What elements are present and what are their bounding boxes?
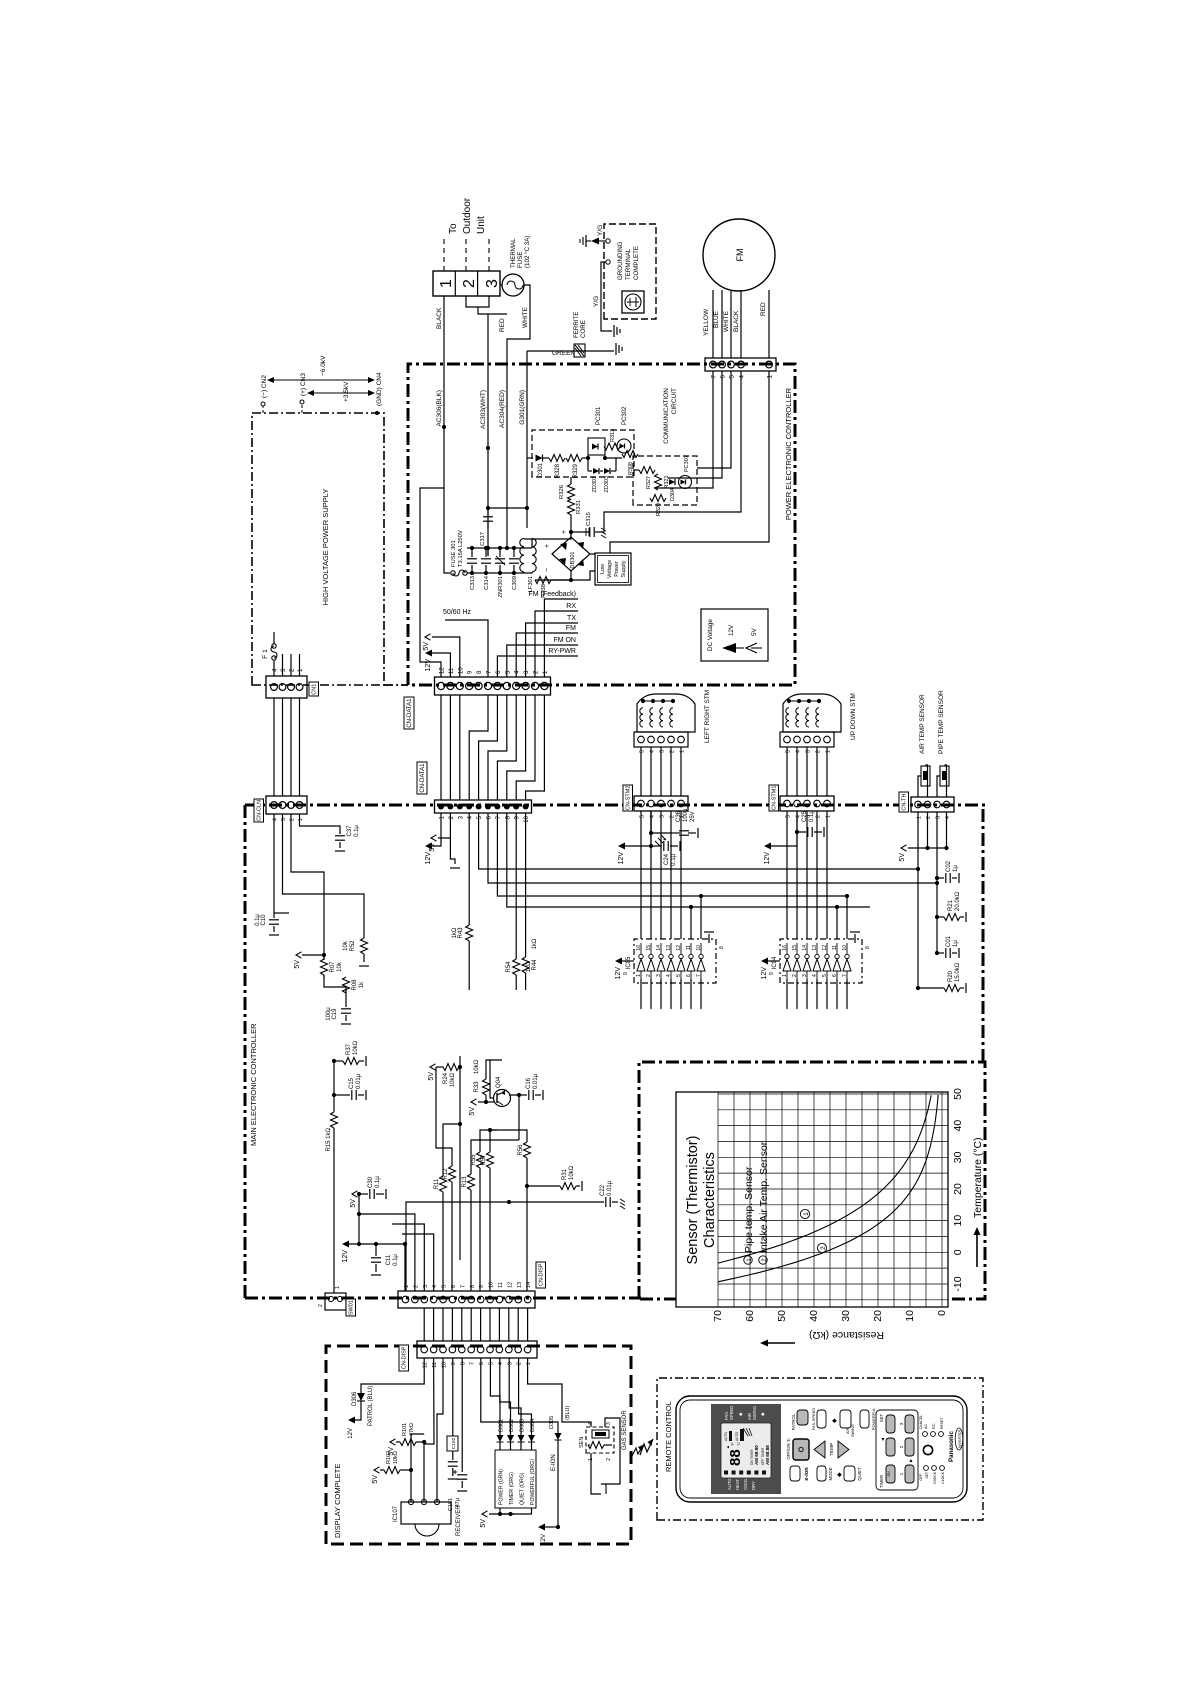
svg-text:−6.0kV: −6.0kV	[320, 355, 327, 376]
svg-text:GREEN: GREEN	[552, 350, 575, 357]
svg-text:C16: C16	[526, 1077, 532, 1089]
svg-text:e-ion: e-ion	[804, 1467, 810, 1481]
svg-text:C10: C10	[261, 914, 267, 926]
graph curve 1 pipe temp sensor	[718, 1095, 931, 1263]
svg-text:9: 9	[451, 1362, 457, 1365]
svg-text:C309: C309	[512, 576, 518, 590]
svg-text:88: 88	[727, 1449, 744, 1466]
svg-text:5: 5	[442, 1285, 448, 1288]
svg-text:AM 88:88: AM 88:88	[765, 1445, 770, 1465]
wires FM to connector	[712, 290, 714, 358]
wire SW01 to R15	[333, 1128, 335, 1293]
svg-text:IC05: IC05	[626, 956, 632, 969]
svg-text:POWER (GRN): POWER (GRN)	[499, 1469, 505, 1505]
svg-text:FM (Feedback): FM (Feedback)	[529, 591, 576, 598]
small buttons AC RC	[923, 1432, 928, 1437]
graph outer box	[676, 1092, 948, 1307]
capacitor C25	[797, 831, 806, 833]
resistor R33	[485, 1095, 487, 1102]
svg-text:3: 3	[484, 279, 501, 288]
svg-text:R313: R313	[610, 429, 616, 442]
resistor R320	[650, 495, 666, 502]
junction AC wires	[442, 425, 446, 429]
Q04 emitter and C16	[509, 1095, 519, 1102]
communication circuit dashed box 1	[532, 430, 634, 477]
capacitor C103	[448, 1465, 458, 1467]
thermistor AIR TEMP SENSOR	[918, 776, 921, 797]
wires FM connector pins 5 6 7	[656, 371, 713, 488]
svg-text:5V: 5V	[372, 1475, 379, 1484]
svg-text:D305: D305	[549, 1416, 555, 1429]
svg-text:DB301: DB301	[570, 551, 576, 568]
svg-text:6: 6	[832, 974, 838, 977]
wire terminal 1 to fuse area	[466, 296, 489, 307]
svg-text:Q04: Q04	[496, 1076, 502, 1088]
capacitor C22	[605, 1197, 607, 1207]
svg-text:AIR TEMP SENSOR: AIR TEMP SENSOR	[919, 694, 926, 754]
button POWERFUL	[860, 1410, 869, 1428]
svg-text:8: 8	[865, 946, 871, 949]
LED name box	[495, 1450, 536, 1508]
round clock button	[923, 1445, 932, 1454]
stub wires CN-DISP pins 2 3 4	[359, 1214, 415, 1291]
svg-text:QUIET: QUIET	[857, 1467, 862, 1481]
svg-text:14: 14	[526, 1282, 532, 1288]
connector CN-DISP main side	[398, 1291, 535, 1308]
svg-text:8: 8	[719, 946, 725, 949]
CN1 stub wires	[282, 654, 284, 676]
svg-text:R329: R329	[573, 463, 579, 478]
button e-ion	[790, 1466, 800, 1481]
svg-text:1: 1	[767, 375, 774, 379]
svg-text:12V: 12V	[425, 852, 432, 865]
label CN-DATA1 main side	[417, 762, 427, 794]
svg-text:7: 7	[842, 974, 848, 977]
svg-text:4: 4	[812, 974, 818, 977]
opto coupler PC307	[679, 476, 692, 489]
svg-text:1: 1	[335, 1286, 341, 1289]
svg-text:5: 5	[822, 974, 828, 977]
svg-text:R33: R33	[474, 1081, 480, 1093]
resistors R331 R326 chain	[570, 515, 572, 537]
svg-text:5: 5	[676, 974, 682, 977]
svg-text:20: 20	[952, 1183, 964, 1195]
svg-text:R55: R55	[471, 1154, 477, 1166]
5V arrow CN-DATA1 main	[438, 813, 450, 838]
display complete dashed box	[326, 1346, 631, 1544]
switch SW01	[325, 1293, 346, 1310]
svg-text:INVERTER: INVERTER	[958, 1430, 962, 1449]
svg-text:7: 7	[711, 375, 718, 379]
graph curve 2 intake air temp sensor	[718, 1095, 938, 1282]
stepper motor LEFT RIGHT STM	[637, 694, 695, 732]
svg-text:30: 30	[840, 1310, 852, 1322]
wires CN1 to CN-CLN	[273, 698, 275, 796]
curve label 1	[800, 1209, 809, 1218]
svg-text:C01: C01	[946, 935, 952, 947]
Y/G wire with earth arrow	[606, 239, 610, 243]
gap segment between HVPS and power box	[384, 684, 408, 686]
fuse FUSE301	[451, 571, 455, 575]
svg-text:CORE: CORE	[580, 320, 587, 338]
svg-text:SWING: SWING	[752, 1406, 757, 1420]
main electronic controller left edge	[245, 1297, 641, 1300]
sensor characteristics dashed box	[639, 1062, 985, 1299]
svg-text:10: 10	[952, 1215, 964, 1227]
svg-text:OFF: OFF	[919, 1473, 923, 1481]
svg-text:G301(GRN): G301(GRN)	[519, 390, 526, 425]
svg-text:30: 30	[952, 1151, 964, 1163]
label CN-STM1	[769, 785, 779, 811]
svg-text:9: 9	[479, 1285, 485, 1288]
svg-text:0: 0	[936, 1310, 948, 1316]
svg-text:11: 11	[832, 945, 838, 950]
svg-text:-10: -10	[952, 1276, 964, 1291]
svg-text:R57: R57	[481, 1154, 487, 1166]
driver IC IC05	[634, 939, 716, 983]
svg-text:0.1μ: 0.1μ	[393, 1254, 399, 1266]
svg-text:SEN: SEN	[579, 1437, 585, 1448]
svg-text:SW01: SW01	[348, 1300, 354, 1315]
5V line to C22	[406, 1202, 604, 1291]
svg-text:MAIN ELECTRONIC CONTROLLER: MAIN ELECTRONIC CONTROLLER	[249, 1023, 258, 1146]
svg-text:To: To	[448, 223, 459, 234]
wire AC303(WHT)	[487, 314, 489, 556]
diode D305 E-ION	[481, 1358, 558, 1433]
svg-text:10kΩ: 10kΩ	[353, 1040, 359, 1055]
svg-text:Pipe temp. Sensor: Pipe temp. Sensor	[743, 1166, 755, 1253]
svg-text:14: 14	[656, 945, 662, 951]
fuse F1	[273, 661, 275, 676]
svg-text:1: 1	[636, 974, 642, 977]
svg-text:10kΩ: 10kΩ	[474, 1059, 480, 1074]
svg-text:C317: C317	[480, 532, 486, 546]
svg-text:REMOTE CONTROL: REMOTE CONTROL	[664, 1401, 673, 1472]
svg-text:Characteristics: Characteristics	[702, 1152, 718, 1248]
svg-text:DISPLAY COMPLETE: DISPLAY COMPLETE	[333, 1464, 342, 1538]
svg-text:−: −	[544, 568, 551, 572]
svg-text:SPEED: SPEED	[729, 1406, 734, 1420]
svg-text:CN-DATA1: CN-DATA1	[420, 763, 426, 793]
svg-text:IC04: IC04	[772, 956, 778, 969]
wire green to ferrite core	[527, 350, 614, 352]
signal wires to pins	[544, 599, 578, 677]
svg-text:7: 7	[696, 974, 702, 977]
svg-text:R331: R331	[576, 500, 582, 514]
dashed leads to outdoor unit	[443, 237, 445, 271]
wire G301(GRN)	[526, 351, 528, 528]
svg-text:AUTO: AUTO	[727, 1478, 732, 1490]
svg-text:D301: D301	[499, 1419, 505, 1432]
svg-text:Y/G: Y/G	[597, 225, 604, 236]
svg-text:Voltage: Voltage	[607, 560, 613, 578]
12V arrow CN-STM1	[771, 811, 797, 846]
svg-text:2: 2	[517, 1362, 523, 1365]
svg-text:AC304(RED): AC304(RED)	[499, 390, 506, 428]
IC05 wires to CN-STM2	[640, 811, 642, 939]
svg-text:LEFT RIGHT STM: LEFT RIGHT STM	[704, 690, 711, 743]
LED wires and diodes D301 D302 D303 D304	[490, 1358, 500, 1435]
svg-text:YELLOW: YELLOW	[703, 308, 710, 336]
svg-text:◆: ◆	[837, 1472, 843, 1477]
svg-text:GAS SENSOR: GAS SENSOR	[622, 1410, 628, 1450]
resistor R07 with 5V	[296, 952, 302, 958]
svg-text:BLACK: BLACK	[733, 310, 740, 332]
bridge rectifier DB301	[552, 537, 590, 571]
resistor R328	[549, 455, 565, 462]
svg-text:T3.15A L250V: T3.15A L250V	[458, 530, 464, 567]
svg-text:+3.5kV: +3.5kV	[343, 381, 350, 402]
svg-text:2: 2	[792, 974, 798, 977]
svg-text:PATROL: PATROL	[791, 1413, 796, 1430]
svg-text:COMPLETE: COMPLETE	[633, 246, 640, 280]
svg-text:0.1μ: 0.1μ	[375, 1176, 381, 1188]
svg-text:AIR: AIR	[846, 1427, 850, 1434]
Q04 base 5V	[486, 1101, 494, 1103]
svg-text:OFF/ON ①: OFF/ON ①	[786, 1438, 791, 1459]
svg-text:8: 8	[460, 1362, 466, 1365]
rail B	[467, 547, 530, 549]
12V arrow CN-STM2	[625, 811, 651, 846]
rail A power entry	[444, 571, 450, 573]
svg-text:C101: C101	[448, 1498, 454, 1511]
label CN-CLN	[254, 799, 264, 822]
svg-text:C19: C19	[332, 1008, 338, 1020]
svg-text:PIPE TEMP SENSOR: PIPE TEMP SENSOR	[938, 690, 945, 754]
small buttons SET CHECK CLOCK RESET	[924, 1466, 929, 1471]
svg-text:10: 10	[696, 945, 702, 951]
svg-text:2: 2	[606, 1458, 612, 1461]
svg-text:11: 11	[432, 1362, 438, 1368]
svg-text:PATROL (BLU): PATROL (BLU)	[368, 1386, 374, 1426]
Y/G wire bottom to earth	[606, 260, 610, 264]
svg-text:PC302: PC302	[622, 406, 628, 425]
svg-text:TERMINAL: TERMINAL	[625, 248, 632, 280]
svg-text:C314: C314	[484, 575, 490, 590]
svg-text:COOL: COOL	[743, 1477, 748, 1490]
resistor R12 wire pin6	[451, 1182, 453, 1291]
svg-text:ZD303: ZD303	[604, 476, 610, 493]
svg-text:CN-TH: CN-TH	[901, 793, 907, 810]
svg-text:R328: R328	[555, 463, 561, 478]
LCD left squares column	[724, 1471, 728, 1475]
svg-text:R101: R101	[402, 1423, 408, 1436]
ferrite core	[574, 344, 585, 357]
svg-text:PC307: PC307	[684, 455, 690, 472]
zener diodes ZD301 ZD303	[588, 470, 592, 472]
IC107 wires	[410, 1470, 412, 1502]
resistor R101 with 5V	[390, 1439, 396, 1445]
resistor R20	[918, 987, 944, 989]
chassis ground C315	[601, 528, 606, 538]
svg-text:SET: SET	[925, 1472, 929, 1479]
svg-text:FAN SPEED: FAN SPEED	[811, 1408, 816, 1431]
stepper connector UP DOWN STM	[780, 732, 834, 747]
DC voltage legend box	[701, 609, 768, 661]
connector CN-TH	[911, 797, 954, 812]
wires between CN-DATA1 connectors	[440, 695, 442, 800]
receiver IC107	[401, 1502, 451, 1524]
svg-text:5V: 5V	[480, 1519, 487, 1528]
svg-text:0.01μ: 0.01μ	[607, 1180, 613, 1196]
svg-text:RECEIVER: RECEIVER	[456, 1505, 462, 1536]
svg-text:R43: R43	[458, 927, 464, 939]
capacitor C19	[345, 993, 347, 1007]
svg-text:AM 88:80: AM 88:80	[754, 1445, 759, 1465]
svg-text:CLOCK: CLOCK	[941, 1471, 945, 1483]
svg-text:4: 4	[739, 375, 746, 379]
svg-text:1kΩ: 1kΩ	[452, 927, 458, 938]
svg-text:Resistance (kΩ): Resistance (kΩ)	[809, 1329, 884, 1341]
svg-text:15: 15	[646, 945, 652, 951]
svg-text:WHITE: WHITE	[522, 306, 529, 328]
12V arrow IC05	[622, 960, 634, 962]
svg-text:D302: D302	[509, 1419, 515, 1432]
svg-text:70: 70	[712, 1310, 724, 1322]
svg-text:F 1: F 1	[262, 649, 269, 659]
svg-text:16: 16	[636, 945, 642, 951]
label CN-DISP main	[536, 1262, 546, 1288]
svg-text:SET: SET	[879, 1413, 884, 1422]
svg-text:R327: R327	[646, 476, 652, 489]
capacitor C317	[487, 523, 489, 528]
thermistor PIPE TEMP SENSOR	[937, 776, 940, 797]
svg-text:2: 2	[413, 1285, 419, 1288]
svg-text:D304: D304	[530, 1419, 536, 1432]
svg-text:C22: C22	[600, 1184, 606, 1196]
svg-text:C30: C30	[368, 1176, 374, 1188]
svg-text:TIMER (ORG): TIMER (ORG)	[509, 1472, 515, 1505]
diode D304	[669, 479, 675, 485]
IC05 spare output taps to bus	[690, 907, 692, 939]
TEMP buttons	[814, 1441, 825, 1458]
svg-text:5V: 5V	[350, 1199, 357, 1208]
svg-text:AC306(BLK): AC306(BLK)	[436, 390, 443, 427]
earth ground after ferrite	[616, 343, 622, 355]
svg-text:50/60 Hz: 50/60 Hz	[443, 609, 472, 616]
resistor R57 wire pin10	[489, 1168, 491, 1291]
svg-text:12V: 12V	[615, 967, 622, 980]
svg-text:(BLU): (BLU)	[565, 1405, 571, 1420]
svg-text:Y/G: Y/G	[593, 296, 600, 307]
grounding terminal symbol	[622, 291, 644, 313]
svg-text:RX: RX	[566, 603, 576, 610]
gas sensor box	[586, 1427, 614, 1453]
high voltage power supply dashed box	[252, 413, 384, 685]
opto coupler PC301	[588, 438, 605, 455]
wire AC304(RED)	[507, 285, 530, 542]
svg-text:3: 3	[656, 974, 662, 977]
svg-text:11: 11	[686, 945, 692, 950]
resistor R55 wire pin9	[479, 1168, 481, 1291]
svg-text:14: 14	[802, 945, 808, 951]
svg-text:60: 60	[744, 1310, 756, 1322]
svg-text:12: 12	[822, 945, 828, 951]
svg-text:BLUE: BLUE	[713, 310, 720, 328]
label CN-TH	[899, 792, 909, 812]
svg-text:0.1μ: 0.1μ	[354, 825, 360, 837]
svg-text:QUIET (ORG): QUIET (ORG)	[520, 1472, 526, 1505]
svg-text:R326: R326	[559, 485, 565, 499]
svg-text:TIMER: TIMER	[879, 1475, 884, 1488]
resistor R52	[302, 894, 364, 938]
connector CN1	[266, 676, 307, 698]
svg-text:15.0kΩ: 15.0kΩ	[955, 962, 961, 982]
IC04 pin 8 termination	[854, 934, 856, 943]
svg-text:POWERFUL (ORG): POWERFUL (ORG)	[530, 1459, 536, 1505]
svg-text:8: 8	[470, 1285, 476, 1288]
svg-text:Power: Power	[614, 561, 620, 577]
button AIR SWING	[840, 1410, 851, 1428]
svg-text:1k: 1k	[359, 981, 365, 988]
svg-text:RY-PWR: RY-PWR	[548, 648, 576, 655]
svg-text:12: 12	[507, 1282, 513, 1288]
svg-text:RC: RC	[932, 1423, 936, 1429]
svg-text:47kΩ: 47kΩ	[409, 1423, 415, 1436]
svg-text:5V: 5V	[428, 1072, 435, 1081]
svg-text:12V: 12V	[728, 624, 735, 636]
gas sensor lightning	[632, 1445, 643, 1456]
graph grid	[718, 1092, 948, 1307]
svg-text:FUSE: FUSE	[517, 251, 524, 268]
svg-text:THERMAL: THERMAL	[510, 238, 517, 268]
svg-text:(+) CN3: (+) CN3	[300, 373, 307, 396]
svg-text:GROUNDING: GROUNDING	[617, 241, 624, 280]
svg-text:6: 6	[686, 974, 692, 977]
svg-text:0.01μ: 0.01μ	[356, 1073, 362, 1089]
svg-text:10: 10	[842, 945, 848, 951]
resistor R37	[332, 1059, 336, 1063]
capacitor C15	[332, 1093, 336, 1097]
svg-text:1μ: 1μ	[953, 865, 959, 872]
svg-text:PC301: PC301	[596, 406, 602, 425]
svg-text:50: 50	[776, 1310, 788, 1322]
graph legend	[744, 1256, 752, 1264]
svg-text:Outdoor: Outdoor	[462, 197, 473, 234]
svg-text:3: 3	[802, 974, 808, 977]
svg-text:AC303(WHT): AC303(WHT)	[480, 390, 487, 429]
svg-text:1: 1	[404, 1285, 410, 1288]
main electronic controller boundary (connector line)	[245, 804, 988, 807]
FM motor connector	[705, 358, 776, 371]
svg-text:7: 7	[470, 1362, 476, 1365]
svg-text:C313: C313	[470, 576, 476, 590]
svg-text:D301: D301	[538, 462, 544, 477]
svg-text:RED: RED	[499, 318, 506, 332]
remote LCD window	[721, 1423, 771, 1478]
svg-text:TX: TX	[567, 615, 576, 622]
svg-text:CANCEL: CANCEL	[919, 1415, 923, 1430]
svg-text:POWER ELECTRONIC CONTROLLER: POWER ELECTRONIC CONTROLLER	[784, 387, 793, 520]
svg-text:5: 5	[489, 1362, 495, 1365]
label CN1	[309, 682, 319, 696]
svg-text:BLACK: BLACK	[436, 307, 443, 329]
resistor R31	[525, 1184, 529, 1188]
sensor divider wires	[917, 812, 919, 988]
voltage arrow +3.5kV	[312, 392, 370, 394]
svg-text:12V: 12V	[425, 659, 432, 672]
thermal fuse	[502, 274, 524, 296]
svg-text:Low: Low	[600, 564, 606, 574]
connector CN-DISP display side	[417, 1341, 537, 1358]
svg-text:100μ: 100μ	[683, 808, 689, 822]
svg-text:12V: 12V	[761, 967, 768, 980]
svg-text:4: 4	[498, 1362, 504, 1365]
svg-text:50: 50	[952, 1088, 964, 1100]
svg-text:5V: 5V	[388, 1447, 395, 1456]
capacitor C37	[300, 814, 341, 834]
remote control dashed box	[657, 1378, 983, 1520]
